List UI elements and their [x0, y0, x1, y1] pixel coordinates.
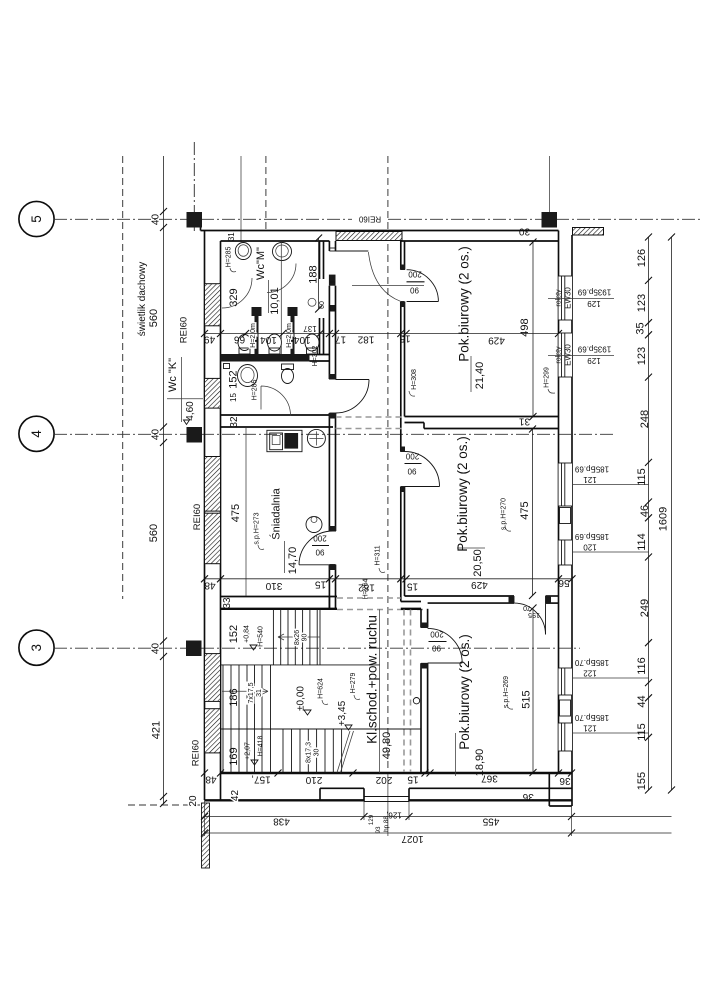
svg-text:4,60: 4,60 — [185, 401, 196, 421]
svg-text:115: 115 — [636, 468, 648, 486]
middle office top wall — [405, 417, 559, 429]
svg-text:rolety: rolety — [556, 346, 563, 364]
svg-text:REI60: REI60 — [191, 740, 202, 766]
svg-text:202: 202 — [375, 774, 392, 785]
svg-text:129: 129 — [587, 356, 601, 365]
svg-text:5: 5 — [29, 215, 44, 223]
svg-text:195: 195 — [528, 611, 540, 618]
wall axis line (dash-dot) — [193, 142, 195, 231]
svg-text:129: 129 — [587, 299, 601, 308]
pier block W5/W6 — [560, 700, 571, 716]
svg-text:H=285: H=285 — [252, 379, 259, 400]
swietlik dashed line — [122, 156, 124, 599]
stall partition 2 — [288, 307, 298, 361]
svg-text:104: 104 — [294, 334, 311, 345]
svg-text:H=279: H=279 — [350, 672, 357, 693]
top office labels — [409, 239, 555, 421]
svg-text:40: 40 — [151, 214, 162, 226]
svg-text:120: 120 — [583, 543, 597, 552]
svg-text:EW30: EW30 — [564, 287, 573, 309]
svg-text:90: 90 — [302, 634, 309, 642]
svg-text:REI60: REI60 — [192, 504, 203, 530]
flight 2 treads (left mid) — [223, 665, 262, 729]
svg-text:123: 123 — [636, 347, 648, 365]
svg-text:8x17,3: 8x17,3 — [306, 742, 313, 763]
svg-text:H=299: H=299 — [544, 367, 551, 388]
door between offices (70/195) — [514, 603, 546, 634]
window W1 — [556, 276, 573, 320]
door middle office — [405, 452, 440, 487]
svg-text:31: 31 — [256, 689, 263, 697]
svg-text:+2,07: +2,07 — [245, 742, 252, 760]
svg-text:1027: 1027 — [401, 833, 424, 844]
top-right hatched stub — [573, 228, 604, 236]
stair break line — [337, 731, 350, 773]
svg-text:10,01: 10,01 — [269, 287, 281, 315]
svg-text:185Бp.69: 185Бp.69 — [574, 532, 609, 541]
svg-text:475: 475 — [519, 501, 531, 519]
svg-text:18,90: 18,90 — [474, 749, 486, 777]
dashed rail lines — [404, 610, 420, 773]
svg-text:210: 210 — [305, 774, 322, 785]
svg-text:70: 70 — [523, 604, 531, 611]
window W3 — [559, 463, 573, 506]
svg-text:182: 182 — [357, 334, 374, 345]
svg-text:15: 15 — [407, 774, 419, 785]
svg-text:560: 560 — [148, 524, 160, 542]
svg-text:93: 93 — [375, 826, 382, 834]
svg-text:498: 498 — [519, 318, 531, 336]
svg-text:17: 17 — [335, 334, 347, 345]
svg-text:200: 200 — [405, 452, 419, 461]
column axis5 right — [542, 212, 558, 228]
svg-text:+3,45: +3,45 — [337, 700, 348, 726]
axis circle 4 — [19, 416, 54, 451]
svg-text:REI60: REI60 — [358, 215, 381, 224]
Wc K label outside — [167, 357, 203, 425]
REI60 label on axis 5 — [352, 213, 388, 225]
svg-text:s.p.H=270: s.p.H=270 — [501, 498, 508, 530]
svg-text:438: 438 — [273, 816, 290, 827]
svg-text:114: 114 — [636, 533, 648, 551]
188 dim line in WC M — [308, 235, 322, 313]
WC K inner door arc — [261, 386, 291, 416]
svg-text:36: 36 — [522, 791, 534, 802]
axis circle 5 — [19, 201, 54, 236]
WC / Sniadalnia partition wall — [221, 415, 334, 427]
svg-text:rolety: rolety — [556, 289, 563, 307]
svg-text:Pok.biurowy (2 os.): Pok.biurowy (2 os.) — [457, 634, 472, 750]
svg-text:104: 104 — [260, 334, 277, 345]
window W2 — [556, 333, 573, 377]
grab bar mark — [224, 364, 230, 369]
svg-text:48: 48 — [204, 580, 216, 591]
svg-text:152: 152 — [228, 625, 240, 643]
WC M/K partition (black band) — [221, 354, 330, 362]
axis circle 3 — [19, 630, 54, 665]
svg-text:20: 20 — [188, 795, 199, 807]
svg-text:115: 115 — [636, 723, 648, 741]
svg-text:185Бp.70: 185Бp.70 — [574, 713, 609, 722]
right facade wall faces — [559, 231, 573, 807]
svg-text:H=302: H=302 — [312, 345, 319, 366]
door bottom office labels — [429, 630, 447, 653]
svg-text:14,70: 14,70 — [287, 547, 299, 575]
svg-text:4: 4 — [29, 430, 44, 438]
svg-text:121: 121 — [583, 724, 597, 733]
svg-text:36: 36 — [559, 775, 571, 786]
door middle office labels 90/200 — [405, 452, 422, 476]
svg-text:8x26: 8x26 — [294, 630, 301, 645]
svg-text:182: 182 — [358, 582, 375, 593]
svg-text:121: 121 — [583, 475, 597, 484]
svg-text:421: 421 — [151, 721, 163, 739]
axis line 3 — [54, 647, 580, 649]
flight 4 treads (bottom) — [292, 729, 342, 773]
svg-text:48: 48 — [205, 774, 217, 785]
svg-text:90: 90 — [432, 644, 441, 653]
facade reference line — [549, 156, 551, 212]
svg-text:123: 123 — [636, 294, 648, 312]
svg-text:90: 90 — [410, 286, 419, 295]
bottom-right corner block — [549, 773, 572, 806]
pier block W3/W4 — [560, 508, 571, 524]
washbasin 1 — [235, 243, 251, 260]
section line — [240, 156, 242, 242]
svg-text:H=540: H=540 — [258, 626, 265, 647]
Sniadalnia labels — [230, 428, 299, 596]
svg-text:Pok.biurowy (2 os.): Pok.biurowy (2 os.) — [455, 436, 470, 552]
svg-text:126: 126 — [636, 249, 648, 267]
svg-text:249: 249 — [639, 599, 651, 617]
svg-text:H=624: H=624 — [318, 678, 325, 699]
svg-text:157,: 157, — [251, 774, 270, 785]
svg-text:40: 40 — [151, 643, 162, 655]
door jamb caps — [329, 265, 551, 669]
svg-text:31: 31 — [519, 416, 531, 427]
bottom wall — [205, 773, 572, 802]
svg-text:H=308: H=308 — [411, 369, 418, 390]
svg-text:152: 152 — [228, 370, 240, 388]
window W4 — [559, 540, 573, 565]
svg-text:s.p.H=269: s.p.H=269 — [503, 676, 510, 708]
svg-text:30: 30 — [314, 749, 321, 757]
svg-text:hp.88: hp.88 — [383, 816, 390, 832]
kitchen unit — [267, 430, 302, 451]
svg-text:155: 155 — [636, 772, 648, 790]
window W6 — [559, 723, 573, 751]
svg-text:515: 515 — [521, 690, 533, 708]
stair / middle-office wall block — [401, 602, 421, 609]
svg-text:±0,00: ±0,00 — [296, 686, 307, 711]
svg-text:31: 31 — [227, 232, 236, 241]
svg-text:21,40: 21,40 — [474, 362, 486, 390]
window W5 — [559, 668, 573, 695]
svg-text:248: 248 — [639, 410, 651, 428]
column axis5 — [187, 212, 203, 228]
door bottom office (from corridor) — [428, 628, 463, 663]
dashed wall continuation across corridor (WC level) — [336, 416, 405, 418]
corridor right wall — [401, 241, 405, 602]
svg-text:200: 200 — [313, 534, 327, 543]
bottom office left wall — [421, 609, 428, 773]
corridor dashed line — [387, 156, 389, 772]
window labels — [574, 288, 611, 733]
svg-text:Pok.biurowy (2 os.): Pok.biurowy (2 os.) — [457, 246, 472, 362]
svg-text:REI60: REI60 — [179, 317, 190, 343]
svg-text:116: 116 — [636, 657, 648, 675]
svg-text:1935p.69: 1935p.69 — [577, 288, 611, 297]
svg-text:560: 560 — [148, 309, 160, 327]
toilet 3 — [305, 334, 319, 354]
dim texts inside WC — [226, 242, 327, 402]
flight 1 treads (top) — [273, 610, 317, 665]
bottom office labels — [456, 605, 537, 777]
svg-text:1609: 1609 — [658, 507, 670, 531]
svg-text:60: 60 — [319, 301, 326, 309]
svg-text:46: 46 — [639, 505, 651, 517]
svg-text:Kl.schod.+pow. ruchu: Kl.schod.+pow. ruchu — [365, 615, 380, 744]
svg-text:66: 66 — [234, 334, 246, 345]
toilet 2 — [268, 334, 282, 354]
below-building wall strip — [128, 803, 210, 868]
middle office labels — [363, 426, 537, 600]
svg-text:35: 35 — [635, 322, 647, 334]
svg-text:15: 15 — [399, 333, 411, 344]
Sniadalnia / stair partition wall — [221, 597, 338, 609]
svg-text:świetlik dachowy: świetlik dachowy — [137, 262, 148, 336]
svg-text:42: 42 — [230, 790, 241, 802]
svg-text:EW30: EW30 — [564, 344, 573, 366]
axis line 4 — [54, 433, 615, 435]
middle / bottom office wall — [405, 596, 559, 603]
svg-text:90: 90 — [315, 548, 324, 557]
door top office — [407, 270, 439, 302]
door Sniadalnia — [299, 531, 333, 565]
stall doors arcs — [222, 278, 252, 308]
top wall — [201, 228, 559, 242]
svg-text:Śniadalnia: Śniadalnia — [270, 487, 283, 539]
svg-text:H=2,0m: H=2,0m — [250, 323, 257, 348]
svg-text:44: 44 — [636, 695, 648, 707]
corridor left wall — [329, 241, 336, 610]
svg-text:56: 56 — [558, 577, 570, 588]
svg-text:129: 129 — [368, 814, 375, 825]
svg-text:185Бp.69: 185Бp.69 — [574, 465, 609, 474]
svg-text:H=311: H=311 — [375, 545, 382, 565]
498 dim — [532, 242, 534, 417]
svg-text:137: 137 — [303, 324, 317, 333]
svg-text:185Бp.70: 185Бp.70 — [574, 658, 609, 667]
flight 3 treads (left bottom) — [223, 729, 262, 773]
dashed line — [265, 156, 267, 232]
svg-text:200: 200 — [430, 630, 444, 639]
svg-text:169: 169 — [228, 747, 240, 765]
small basin — [306, 517, 322, 533]
svg-text:200: 200 — [408, 270, 422, 279]
svg-text:s.p.H=273: s.p.H=273 — [254, 512, 261, 544]
flight 2 walkline — [222, 688, 268, 694]
toilet 1 — [238, 335, 251, 355]
svg-text:+0,84: +0,84 — [244, 625, 251, 643]
axis line 5 — [54, 218, 352, 220]
stair labels — [228, 615, 393, 766]
left wall hatch segments — [205, 284, 221, 326]
washbasin 2 — [273, 243, 292, 261]
svg-text:H=285: H=285 — [226, 246, 233, 267]
WC M lobby wall — [320, 241, 324, 354]
cooker circle — [307, 429, 325, 447]
window centerlines to dim chain — [548, 299, 649, 734]
svg-text:15: 15 — [315, 579, 327, 590]
svg-text:429: 429 — [471, 579, 488, 590]
svg-text:49: 49 — [204, 334, 216, 345]
svg-text:H=2,0m: H=2,0m — [286, 323, 293, 348]
svg-text:1935p.69: 1935p.69 — [577, 345, 611, 354]
column axis3 — [186, 641, 202, 657]
svg-text:329: 329 — [228, 288, 240, 306]
left wall faces — [205, 231, 221, 801]
svg-text:15: 15 — [407, 581, 419, 592]
svg-text:20,50: 20,50 — [472, 549, 484, 577]
svg-text:32: 32 — [229, 416, 240, 428]
svg-text:429: 429 — [488, 335, 505, 346]
svg-text:122: 122 — [583, 669, 597, 678]
svg-text:3: 3 — [29, 644, 44, 652]
svg-text:310: 310 — [265, 580, 282, 591]
svg-text:Wc"M": Wc"M" — [255, 247, 267, 280]
left dim chain line — [163, 156, 165, 804]
svg-text:7x17,5: 7x17,5 — [248, 682, 255, 703]
svg-text:367: 367 — [481, 773, 498, 784]
svg-text:90: 90 — [407, 467, 416, 476]
svg-text:455: 455 — [482, 816, 499, 827]
svg-text:Wc "K": Wc "K" — [167, 358, 179, 392]
svg-text:H=418: H=418 — [258, 735, 265, 756]
svg-text:188: 188 — [308, 265, 320, 283]
door top office labels 90/200 — [352, 270, 425, 295]
svg-text:49,80: 49,80 — [381, 732, 393, 760]
svg-text:33: 33 — [222, 597, 233, 609]
stall partition 1 — [252, 307, 262, 361]
flight 1 walkline — [278, 634, 320, 640]
entrance threshold — [364, 796, 409, 798]
door WC M (corridor header + swing) — [336, 251, 401, 301]
WC K toilet — [282, 364, 294, 384]
column axis4 — [187, 427, 203, 443]
door WC K (to corridor) — [336, 380, 370, 414]
svg-text:475: 475 — [230, 504, 242, 522]
WC K washbasin — [238, 365, 258, 387]
svg-text:30: 30 — [519, 226, 531, 237]
svg-text:40: 40 — [151, 429, 162, 441]
corridor-stair opening dashed — [337, 597, 401, 599]
svg-text:186: 186 — [228, 688, 240, 706]
svg-text:15: 15 — [229, 393, 238, 402]
stair band dividers — [221, 610, 422, 774]
